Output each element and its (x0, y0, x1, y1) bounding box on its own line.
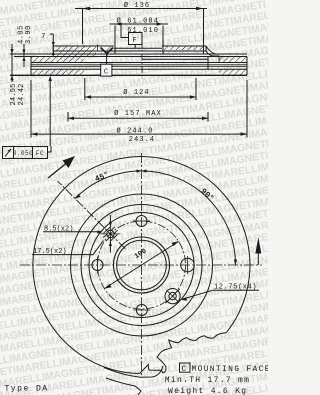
disc OD right edge (246, 57, 248, 76)
friction upper band hatch left (31, 57, 84, 63)
dimension 7 (50, 33, 54, 35)
friction lower band hatch right (219, 69, 247, 75)
ring circle D157 (71, 194, 213, 336)
datum box C (101, 64, 112, 76)
pin hole dim arrows (109, 215, 111, 226)
hat left edge (52, 46, 54, 54)
dimension D136 (75, 8, 207, 10)
disc bottom (10, 74, 247, 76)
bore right edge (162, 46, 164, 54)
svg-text:7: 7 (41, 33, 46, 41)
svg-text:Ø 61.084: Ø 61.084 (117, 17, 159, 26)
hat right edge step (206, 46, 218, 54)
counterbored pin hole lower-right (165, 289, 180, 304)
datum box F (129, 33, 143, 45)
dimension D244.0/243.4 (30, 80, 32, 138)
svg-text:24.55: 24.55 (10, 83, 18, 105)
bore chamfer circle (117, 240, 167, 290)
bore left edge (114, 46, 116, 54)
front view outer circle (33, 157, 250, 374)
section view: hat underside (53, 50, 206, 52)
counterbored pin hole upper-left (107, 230, 114, 237)
front view horizontal centerline (20, 264, 262, 266)
svg-text:Weight 4.6 Kg: Weight 4.6 Kg (168, 387, 247, 395)
inner visible edges (142, 58, 208, 60)
section view: hat top surface (53, 45, 114, 47)
datum box C leader arrow (106, 57, 108, 64)
hat circle D136 (81, 205, 202, 326)
friction upper band hatch right (219, 57, 247, 63)
dimension D157 MAX (67, 112, 69, 122)
bolt hole right (181, 258, 195, 272)
disc OD left edge (30, 57, 32, 76)
45 degree radial line (57, 181, 125, 249)
bolt hole bottom (136, 305, 147, 316)
front view vertical centerline (141, 153, 143, 376)
svg-text:MOUNTING FACE: MOUNTING FACE (192, 365, 269, 374)
angular dimension arc (75, 171, 236, 265)
dimension 24.55/24.42 (11, 44, 13, 82)
right vertical arrow line (257, 250, 259, 265)
line L3 mounting plane (10, 53, 247, 55)
ring circle D124 (89, 213, 194, 318)
line L4 friction top (14, 56, 247, 58)
hat hatch right (162, 46, 206, 51)
svg-text:C: C (182, 365, 187, 374)
bore circle (114, 237, 170, 293)
bcd diameter line 100 (104, 241, 178, 288)
dimension D61.084/61.010 (110, 23, 169, 25)
svg-text:Type DA: Type DA (5, 385, 49, 394)
dimension 4.05/3.90 (23, 44, 25, 67)
feature control frame runout 0.050 FC (3, 147, 48, 159)
svg-text:Ø 136: Ø 136 (124, 1, 151, 10)
svg-text:3.90: 3.90 (25, 25, 33, 44)
svg-text:61.010: 61.010 (127, 27, 159, 35)
torn edge line B (104, 366, 163, 377)
svg-text:243.4: 243.4 (129, 136, 156, 144)
friction lower band hatch left (31, 69, 84, 75)
svg-text:Min.TH 17.7 mm: Min.TH 17.7 mm (165, 376, 250, 385)
mounting face note (180, 363, 191, 372)
bolt hole top (136, 216, 147, 227)
bolt hole hatch patch (107, 47, 114, 52)
svg-text:FC: FC (36, 150, 44, 157)
svg-text:0.050: 0.050 (13, 150, 34, 157)
vent gap lines (31, 62, 247, 64)
hat flange slab hatch (56, 51, 96, 57)
torn edge tangle (140, 333, 227, 374)
bolt hole left (92, 260, 103, 271)
svg-text:F: F (133, 37, 138, 45)
torn edge line C (106, 378, 141, 395)
FCF leader arrow (48, 164, 66, 179)
bolt circle dash-dot (98, 221, 186, 309)
svg-text:Ø 124: Ø 124 (123, 88, 150, 97)
dimension D124 (84, 78, 86, 100)
hat hatch left (56, 46, 96, 51)
svg-text:Ø 157 MAX: Ø 157 MAX (114, 109, 162, 118)
svg-text:C: C (104, 69, 109, 77)
section centerline (141, 41, 143, 79)
svg-text:24.42: 24.42 (18, 83, 26, 105)
svg-text:Ø 244.0: Ø 244.0 (116, 127, 153, 136)
